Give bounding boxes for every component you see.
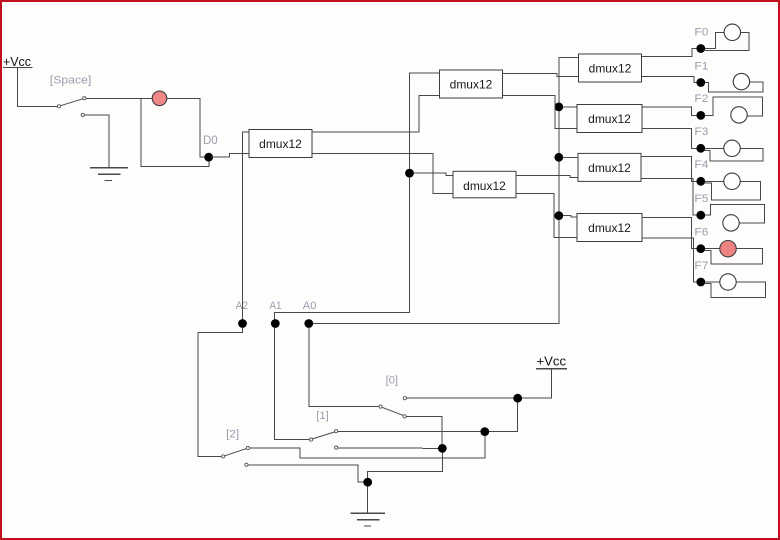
LED F4 (unlit) — [724, 173, 740, 189]
svg-text:dmux12: dmux12 — [588, 112, 631, 126]
switch SW1 (up position) — [309, 430, 337, 450]
node D0 — [204, 153, 213, 162]
wire node A0 to SW0 — [309, 328, 379, 407]
node A2 — [238, 319, 247, 328]
wire node D0 to U1 data input — [211, 153, 249, 157]
demultiplexer U7 dmux12 (stage 3, F6/F7) — [577, 214, 642, 242]
svg-text:A0: A0 — [303, 300, 317, 312]
wire LED-F7 return loop — [705, 282, 766, 297]
demultiplexer U1 dmux12 (stage 1) — [249, 130, 312, 158]
wire U1 out1 to U3 data input — [312, 153, 453, 193]
svg-text:F1: F1 — [694, 60, 708, 72]
wire SW2 lower throw to ground node G — [248, 465, 364, 482]
switch SW-Space (SPDT, up position) — [57, 97, 86, 117]
svg-text:A2: A2 — [236, 300, 248, 312]
svg-text:[2]: [2] — [226, 429, 239, 441]
svg-text:dmux12: dmux12 — [589, 62, 632, 76]
node F2 — [696, 111, 705, 120]
node F5 — [696, 211, 705, 220]
ground (bottom) — [350, 513, 385, 526]
node F7 — [696, 278, 705, 287]
svg-text:F3: F3 — [694, 126, 708, 138]
wire U out to node F4 — [641, 157, 697, 182]
wire U out to node F2 — [642, 107, 697, 115]
svg-text:dmux12: dmux12 — [463, 179, 506, 193]
node F3 — [696, 144, 705, 153]
svg-text:F6: F6 — [694, 227, 708, 239]
wire SW0 lower throw to ground node D1 — [406, 416, 442, 444]
svg-text:dmux12: dmux12 — [588, 221, 631, 235]
wire node F2 to LED-F2 (over loop) — [705, 97, 763, 116]
LED F6 (lit) — [720, 241, 736, 257]
LED F1 (unlit) — [733, 73, 749, 89]
ground (top left) — [90, 168, 128, 181]
wire LED-D0 parallel branch — [141, 99, 209, 167]
wire SW0 upper throw to +Vcc node V0 — [407, 397, 514, 399]
wire node F4 to LED-F4 — [705, 180, 724, 182]
node F4 — [696, 177, 705, 186]
svg-text:dmux12: dmux12 — [588, 161, 631, 175]
svg-text:[0]: [0] — [386, 374, 398, 386]
switch SW0 (down position) — [379, 397, 407, 418]
wire U1 select pin to node A2 — [243, 132, 250, 320]
wire A0 tap to U5 select — [563, 106, 577, 108]
demultiplexer U2 dmux12 (stage 2 upper) — [440, 70, 503, 98]
wire node F6 to LED-F6 — [705, 248, 720, 250]
node A0 tap for U5 — [554, 103, 563, 112]
power supply +Vcc (bottom) — [536, 353, 567, 368]
wire U3 out1 to U7 data input — [516, 194, 577, 238]
demultiplexer U6 dmux12 (stage 3, F4/F5) — [578, 153, 641, 181]
node G (ground junction) — [363, 478, 372, 487]
svg-text:F5: F5 — [694, 193, 708, 205]
svg-text:+Vcc: +Vcc — [537, 353, 567, 368]
demultiplexer U4 dmux12 (stage 3, F0/F1) — [579, 54, 642, 82]
wire U out to node F3 — [642, 129, 697, 149]
wire node V0 down to Vcc bus — [338, 403, 518, 432]
wire +Vcc to switch SW-Space — [17, 68, 57, 106]
wire node F7 to LED-F7 — [705, 281, 720, 283]
node V0 (+Vcc junction) — [513, 394, 522, 403]
wire node G to ground symbol — [367, 486, 369, 513]
wire SW-Space lower throw to ground — [84, 115, 109, 168]
svg-text:[Space]: [Space] — [50, 75, 92, 87]
wire +Vcc to node V0 — [522, 369, 551, 398]
wire LED-F0 return loop — [704, 32, 750, 50]
wire node A2 to SW2 — [198, 328, 242, 457]
wire U out to node F0 — [642, 49, 697, 57]
svg-text:D0: D0 — [203, 135, 218, 147]
LED F2 (unlit) — [731, 107, 747, 123]
node F1 — [696, 78, 705, 87]
node A0 — [304, 319, 313, 328]
LED F7 (unlit) — [720, 274, 736, 290]
wire U2 out0 to U4 data input — [503, 73, 579, 76]
svg-text:[1]: [1] — [316, 410, 328, 422]
wire U3 out0 to U6 data input — [516, 176, 578, 178]
wire SW-Space upper throw to node D0 — [86, 98, 207, 157]
wire U2 out1 to U5 data input — [503, 95, 578, 128]
wire LED-F4 return loop — [705, 181, 761, 200]
node A1 tap for U3 — [405, 169, 414, 178]
svg-text:dmux12: dmux12 — [259, 137, 302, 151]
node F0 — [696, 44, 705, 53]
node A0 tap for U6 — [554, 153, 563, 162]
svg-text:A1: A1 — [269, 300, 281, 312]
node A1 — [271, 319, 280, 328]
wire node D1 to ground node G — [368, 453, 443, 478]
wire node V1 to SW2 upper throw — [250, 436, 485, 458]
wire U out to node F7 — [642, 238, 697, 282]
svg-text:dmux12: dmux12 — [450, 78, 493, 92]
wire U out to node F5 — [641, 179, 697, 216]
LED D0 indicator (lit) — [152, 91, 167, 106]
node V1 (+Vcc junction) — [480, 427, 489, 436]
wire node F3 to LED-F3 — [705, 147, 724, 149]
switch SW2 (up position) — [222, 447, 250, 467]
node F6 — [696, 244, 705, 253]
svg-text:F2: F2 — [694, 93, 708, 105]
wire A1 select line to U2/U3 — [275, 73, 440, 320]
svg-text:F7: F7 — [694, 260, 708, 272]
wire LED-F6 return loop — [705, 249, 763, 264]
LED F5 (unlit) — [723, 215, 739, 231]
LED F3 (unlit) — [724, 140, 740, 156]
wire node F0 to LED-F0 — [705, 32, 724, 48]
wire node A1 to SW1 — [275, 328, 310, 440]
node A0 tap for U7 — [554, 211, 563, 220]
svg-text:F0: F0 — [694, 26, 708, 38]
wire A1 tap to U3 select — [414, 173, 453, 175]
wire SW1 lower throw to node D1 — [338, 447, 438, 449]
wire node F5 to LED-F5 (over loop) — [705, 205, 765, 224]
wire node F1 to LED-F1 (under loop) — [705, 82, 763, 92]
node D1 (ground junction) — [438, 444, 447, 453]
demultiplexer U5 dmux12 (stage 3, F2/F3) — [577, 105, 642, 133]
svg-text:F4: F4 — [694, 159, 708, 171]
wire A0 tap to U7 select — [563, 216, 577, 218]
wire LED-F3 return loop — [705, 148, 764, 161]
wire A0 tap to U6 select — [563, 156, 578, 158]
wire U out to node F1 — [642, 77, 697, 83]
wire A0 select line to U4 — [313, 57, 579, 323]
demultiplexer U3 dmux12 (stage 2 lower) — [453, 171, 516, 198]
svg-text:+Vcc: +Vcc — [3, 54, 31, 69]
wire U1 out0 to U2 data input — [312, 95, 440, 132]
LED F0 (unlit) — [724, 24, 740, 40]
power supply +Vcc (top left) — [3, 54, 33, 69]
wire U out to node F6 — [642, 217, 697, 248]
